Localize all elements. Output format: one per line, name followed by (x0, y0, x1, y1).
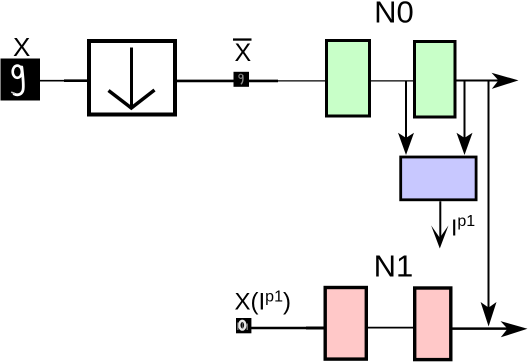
output arrowhead bottom (right) (501, 321, 528, 337)
arrow feature box to index (431, 201, 448, 248)
wire (thick segment) (64, 79, 87, 82)
svg-text:N1: N1 (374, 248, 414, 283)
long wire from N0 output down to N1 output (488, 81, 490, 316)
wire input to downsample box (40, 80, 66, 82)
tap arrow 1 from N0 to feature box (398, 81, 414, 155)
wire thin segment to N0 (278, 80, 325, 82)
wire N0 output to right arrow (457, 80, 513, 82)
svg-text:X(Ip1): X(Ip1) (235, 289, 291, 316)
network N1 layer 2 (pink box) (415, 288, 451, 360)
network N0 layer 1 (green box) (327, 41, 370, 117)
long wire arrowhead (down) (481, 302, 497, 327)
downsampled image sample (small square) (234, 72, 250, 87)
wire (thick segment into N1) (306, 327, 324, 330)
svg-text:X: X (235, 39, 252, 67)
svg-text:N0: N0 (374, 0, 414, 29)
tap arrow 2 from N0 to feature box (457, 81, 473, 155)
wire between N0 layers (371, 80, 413, 82)
wire N1 output to right arrow (453, 327, 521, 330)
label X-bar (233, 38, 252, 67)
feature box (blue) (401, 157, 476, 200)
output arrowhead (right) (492, 73, 519, 89)
downsample arrow (inside box) (109, 48, 155, 109)
reconstructed image sample (small square) (236, 318, 251, 333)
wire reconstruction to N1 (251, 327, 308, 330)
downsample box (89, 41, 175, 115)
wire downsample box to N0 (thick segment) (177, 80, 278, 83)
svg-text:X: X (13, 32, 30, 62)
network N1 layer 1 (pink box) (325, 288, 366, 360)
input image X (MNIST digit 9) (1, 59, 41, 101)
wire between N1 layers (368, 327, 413, 329)
network N0 layer 2 (green box) (415, 42, 456, 118)
